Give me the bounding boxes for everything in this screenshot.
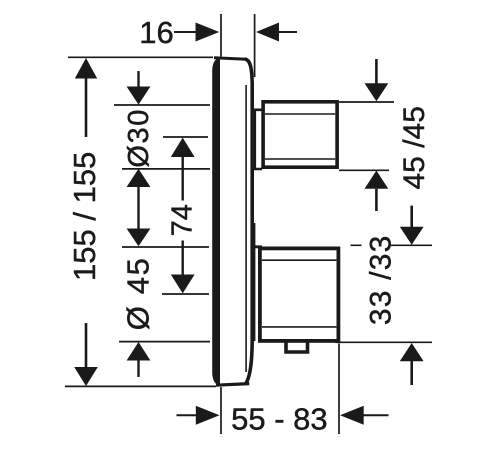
dim O30 extension line top [114, 104, 210, 106]
bottom handle inner line lower [262, 326, 336, 328]
dim 45/45 upper outside arrow pointing down [375, 59, 378, 84]
dim O45 extension line bottom [119, 341, 210, 343]
dim 155 extension line top [68, 56, 213, 58]
svg-text:55 - 83: 55 - 83 [231, 402, 328, 437]
plate face contour thin line [245, 85, 247, 372]
svg-text:74: 74 [167, 204, 199, 236]
top handle inner line upper [265, 113, 335, 115]
dim 45/45 lower outside arrow pointing up [365, 171, 389, 189]
svg-text:33 /33: 33 /33 [365, 234, 398, 325]
svg-text:16: 16 [139, 15, 173, 50]
svg-text:45 /45: 45 /45 [398, 106, 431, 189]
dim 74 center line bottom [162, 293, 209, 295]
dim 155 line lower segment with down arrow [85, 323, 88, 368]
bottom handle tab [286, 343, 308, 353]
top handle hub [254, 109, 262, 171]
bottom handle inner line upper [262, 259, 336, 261]
svg-text:Ø 45: Ø 45 [121, 257, 156, 331]
bottom handle hub [253, 247, 262, 342]
dim 55-83 extension line right [338, 344, 340, 435]
dim 33/33 upper outside arrow pointing down [410, 206, 413, 227]
dim 55-83 leader left with arrow [177, 414, 197, 416]
dim 74 center line top [163, 136, 208, 138]
dim O45 lower outside arrow pointing up [127, 342, 151, 361]
plate right edge [245, 59, 252, 384]
svg-text:155 / 155: 155 / 155 [67, 152, 102, 281]
dim 16 extension line left [220, 14, 222, 57]
dim O30 upper outside arrow pointing down [137, 71, 139, 87]
plate top edge [214, 58, 247, 59]
dim 155 line upper segment with up arrow [85, 77, 88, 137]
top handle inner line lower [265, 158, 335, 160]
dim 16 leader left with arrow [174, 31, 196, 33]
dim 55-83 leader right with arrow [340, 406, 364, 425]
dim 155 extension line bottom [65, 385, 216, 387]
dim O30/O45 middle tail with up arrow and down arrow [127, 169, 151, 187]
dim O30 extension line bottom [122, 168, 210, 170]
dim 33/33 extension line top right [351, 244, 433, 246]
dim 45/45 extension line bottom right [339, 169, 389, 171]
dim 33/33 lower outside arrow pointing up [400, 343, 424, 361]
dim 74 line with inside arrows [171, 138, 195, 157]
bottom handle body [260, 248, 339, 341]
dim 45/45 extension line top right [339, 101, 394, 103]
dim 16 leader right with arrow [256, 23, 279, 42]
plate front face (thick band) [212, 58, 220, 386]
top handle body U1 [263, 102, 337, 167]
svg-text:Ø30: Ø30 [123, 108, 155, 168]
dim O45 extension line top [122, 246, 209, 248]
bottom knob collar line [254, 223, 256, 247]
dim 16 extension line right [254, 14, 256, 77]
dim 33/33 extension line bottom right [336, 341, 433, 343]
dim 55-83 extension line left [220, 387, 222, 434]
plate bottom edge [216, 384, 249, 386]
